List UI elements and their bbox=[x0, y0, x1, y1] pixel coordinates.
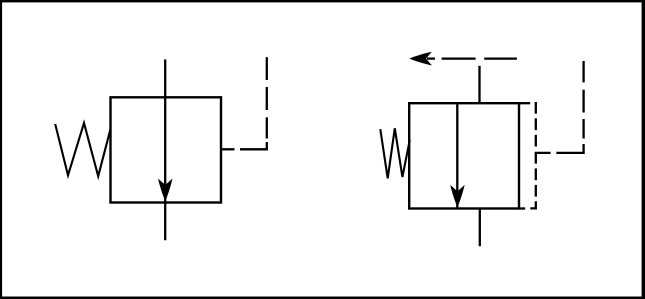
valve body V2 (right relief valve square) bbox=[409, 103, 519, 208]
vent line VL dash a bbox=[442, 57, 476, 59]
pilot line PL2 vertical dash b bbox=[582, 119, 584, 139]
pilot line PL2 vertical dash d bbox=[582, 61, 584, 82]
dashed transition box side D1 dash a bbox=[535, 102, 537, 114]
pilot line PL1 vertical dash b bbox=[266, 117, 268, 138]
wire bottom edge extension of V2 bbox=[519, 207, 525, 209]
wire P2 (right valve top port stub) bbox=[478, 66, 480, 104]
dashed transition box side D1 dash d bbox=[535, 168, 537, 180]
dashed transition box side D1 bottom corner dash bbox=[530, 201, 536, 208]
flow arrow A1 (down arrow inside left valve) bbox=[158, 179, 173, 202]
dashed transition box side D1 dash e bbox=[535, 185, 537, 197]
vent arrow A3 (left-pointing arrow on top dashed line) bbox=[409, 52, 432, 66]
wire top edge extension of V2 bbox=[519, 102, 530, 104]
wire T2 (right valve bottom outlet stub) bbox=[479, 209, 481, 247]
spring S2 (right valve spring) bbox=[380, 128, 410, 178]
pilot line PL2 vertical dash c bbox=[582, 90, 584, 113]
wire internal flow path of V2 bbox=[456, 103, 458, 208]
vent line VL tail at arrow bbox=[427, 57, 435, 59]
dashed transition box side D1 corner dash with pilot branch bbox=[536, 153, 551, 164]
flow arrow A2 (down arrow inside right valve) bbox=[450, 185, 465, 208]
vent line VL dash b bbox=[484, 57, 517, 59]
valve body V1 (left relief valve square) bbox=[111, 97, 222, 202]
wire T1 (left valve internal flow path and outlet line) bbox=[164, 97, 166, 240]
pilot line PL1 vertical dash d bbox=[266, 57, 268, 80]
dashed transition box side D1 dash c bbox=[535, 135, 537, 147]
spring S1 (left valve spring) bbox=[55, 123, 110, 176]
pilot line PL2 corner dash bbox=[556, 144, 583, 153]
wire P1 (left valve inlet line, top) bbox=[164, 59, 166, 97]
pilot line PL1 vertical dash c bbox=[266, 87, 268, 110]
pilot line PL1 horizontal dash a bbox=[222, 148, 235, 150]
pilot line PL1 corner dash bbox=[240, 142, 267, 149]
dashed transition box side D1 dash b bbox=[535, 118, 537, 130]
